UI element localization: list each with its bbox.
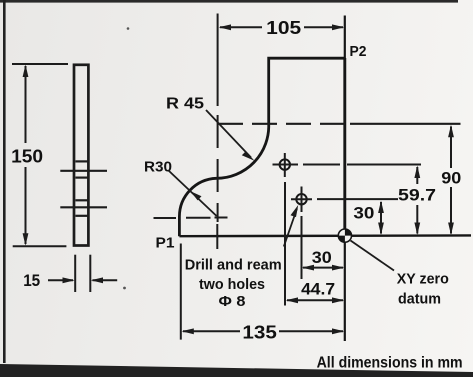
dimension 30 right arrows	[378, 201, 384, 236]
hole 1 vertical centerline and extension	[284, 153, 286, 306]
side view hole 2 hidden lines	[76, 200, 88, 216]
svg-text:15: 15	[23, 271, 40, 290]
svg-text:Φ 8: Φ 8	[219, 293, 246, 310]
XY zero datum symbol	[338, 229, 351, 242]
side view hole 2 centerline	[60, 206, 107, 208]
dimension 15 arrows	[48, 277, 117, 283]
hole 1 circle	[280, 159, 290, 169]
svg-text:105: 105	[266, 18, 301, 38]
dimension 135 left extension line	[180, 244, 182, 340]
R30 center horizontal ticks	[154, 217, 228, 220]
R30 leader arrow	[169, 171, 217, 217]
svg-text:P1: P1	[156, 235, 175, 252]
vertical centerline through R centers	[216, 14, 218, 250]
svg-text:All dimensions in mm: All dimensions in mm	[317, 355, 463, 372]
page bottom shadow band	[0, 364, 473, 377]
datum leader line	[351, 241, 395, 271]
dimension 59.7 arrows	[414, 166, 420, 236]
svg-text:R30: R30	[144, 159, 172, 176]
svg-text:59.7: 59.7	[398, 186, 436, 205]
page top border	[0, 0, 458, 3]
R45 leader arrow	[206, 110, 255, 161]
hole 2 horizontal centerline extending right	[291, 198, 398, 200]
side view outline	[74, 65, 88, 246]
svg-text:R 45: R 45	[166, 96, 204, 113]
dimension 135 line and arrows	[182, 328, 345, 334]
svg-text:XY zero: XY zero	[397, 271, 449, 288]
scan speck	[127, 27, 130, 30]
svg-text:Drill and ream: Drill and ream	[185, 257, 282, 274]
svg-text:datum: datum	[398, 291, 441, 308]
dimension 15 extension lines	[75, 255, 90, 292]
hole 2 vertical centerline and extension	[301, 187, 303, 280]
dimension 30 bottom line and arrows	[302, 265, 345, 271]
main part profile	[179, 58, 344, 236]
dimension 150 extension ticks	[12, 64, 68, 246]
dimension 150 line and arrows	[23, 65, 29, 246]
dimension 44.7 line and arrows	[286, 297, 345, 303]
part right edge with extensions	[344, 16, 346, 342]
svg-text:two holes: two holes	[199, 276, 265, 293]
page left border	[3, 0, 6, 363]
side view hole 1 centerline	[60, 170, 107, 172]
svg-text:44.7: 44.7	[301, 280, 335, 299]
svg-text:135: 135	[242, 323, 277, 343]
dashed line at 90mm level	[218, 123, 461, 125]
hole 2 circle	[296, 194, 306, 204]
svg-text:90: 90	[441, 169, 461, 188]
svg-text:30: 30	[353, 204, 374, 223]
side view hole 1 hidden lines	[76, 161, 88, 177]
hole 1 horizontal centerline dashed to right	[273, 164, 422, 166]
dimension 90 arrows	[448, 125, 454, 235]
drill note leader arrow	[284, 205, 298, 247]
svg-text:150: 150	[11, 147, 43, 167]
dimension 105 line and arrows	[219, 24, 345, 30]
scan speck	[123, 287, 126, 290]
part bottom edge with right extension	[179, 234, 471, 237]
svg-text:30: 30	[312, 248, 332, 267]
svg-text:P2: P2	[350, 43, 367, 60]
